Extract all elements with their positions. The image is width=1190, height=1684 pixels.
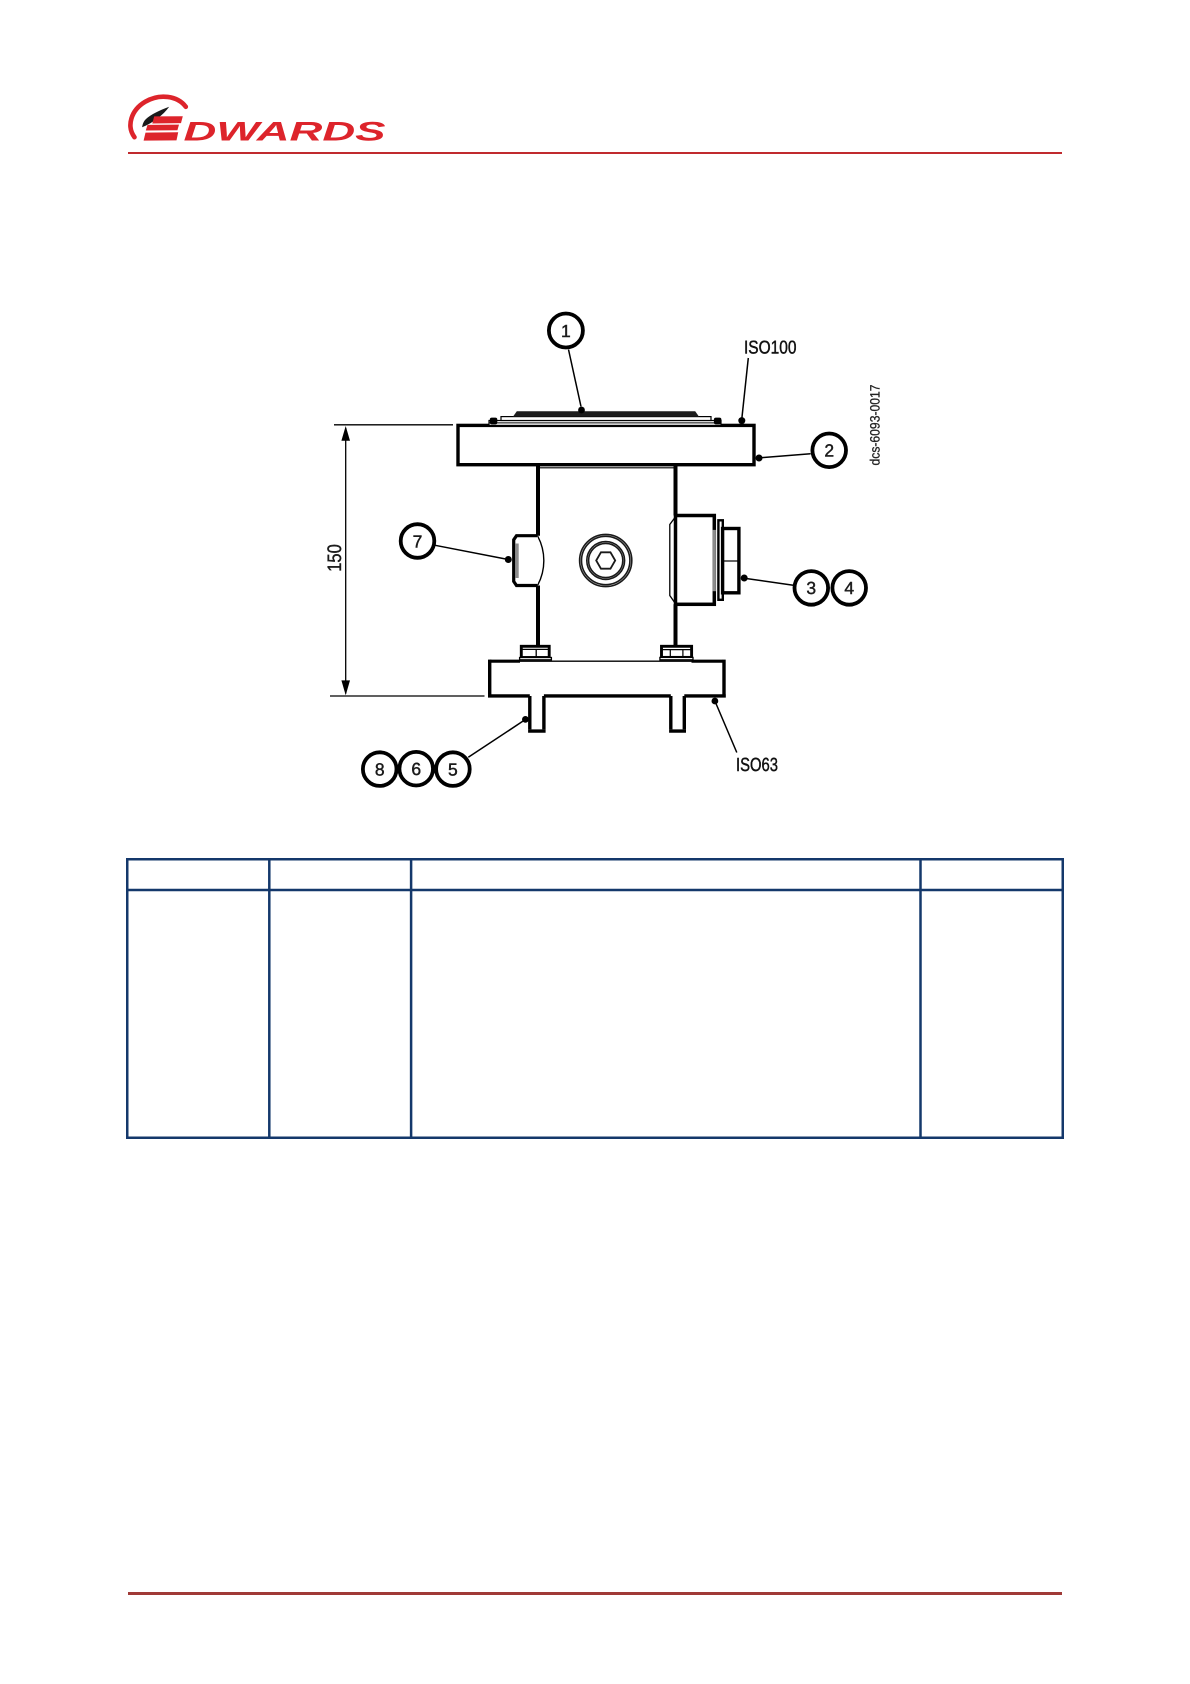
callout 3 <box>795 571 829 605</box>
callout 1 <box>549 314 583 348</box>
dimension 150 extension line top <box>334 424 453 426</box>
bottom flange right edge <box>722 660 725 698</box>
right nut <box>662 646 692 657</box>
bottom flange left edge <box>488 660 491 698</box>
callout 6 <box>399 752 433 786</box>
dimension arrow bottom <box>341 680 350 695</box>
logo E bars <box>152 116 183 123</box>
callout 7 leader <box>435 545 506 559</box>
left washer <box>520 658 552 660</box>
header red rule <box>128 152 1062 155</box>
bottom flange bottom edge <box>488 694 726 697</box>
left port leader dot <box>505 556 512 563</box>
svg-text:ISO63: ISO63 <box>736 755 778 776</box>
ISO63 leader dot <box>712 698 719 705</box>
right port collar <box>718 520 722 600</box>
lid top plate dark <box>513 411 699 416</box>
svg-text:2: 2 <box>824 441 834 461</box>
table outer border <box>127 859 1063 1138</box>
callout 1 leader <box>569 350 582 407</box>
callout 2 leader <box>762 454 811 458</box>
right port tube mid line <box>723 560 738 562</box>
logo swoosh <box>142 107 169 127</box>
svg-text:3: 3 <box>806 578 816 598</box>
svg-text:8: 8 <box>375 759 385 779</box>
Edwards logo <box>110 80 410 155</box>
callout 3 4 leader <box>747 579 793 586</box>
svg-text:5: 5 <box>448 759 458 779</box>
dimension 150 extension line bottom <box>330 695 485 697</box>
svg-text:DWARDS: DWARDS <box>184 117 386 147</box>
right port thin outline <box>670 517 676 604</box>
right leg <box>671 696 685 729</box>
ISO63 leader <box>715 701 737 753</box>
left leg leader dot <box>522 716 529 723</box>
left port bulge arc <box>538 536 544 585</box>
svg-text:7: 7 <box>413 531 423 551</box>
callout 5 leader <box>468 720 525 758</box>
right port main block <box>676 516 715 605</box>
parts table <box>126 858 1064 1139</box>
bottom flange top edge <box>490 660 520 663</box>
right port leader dot <box>741 575 748 582</box>
lid clamp left <box>490 418 498 425</box>
centre hex port circles <box>580 534 632 586</box>
lid band lower <box>489 421 721 426</box>
callout 7 <box>401 524 435 558</box>
top flange ISO100 body <box>458 425 754 464</box>
svg-text:ISO100: ISO100 <box>744 336 797 357</box>
dimension arrow top <box>341 426 350 441</box>
svg-text:4: 4 <box>844 578 854 598</box>
left nut <box>521 646 549 657</box>
body wall left lower <box>536 586 540 647</box>
table column dividers <box>269 858 920 1139</box>
left leg <box>530 696 544 729</box>
table header divider <box>126 889 1064 892</box>
ISO100 leader <box>742 358 749 419</box>
body wall right upper <box>674 464 678 516</box>
body wall left upper <box>536 464 540 536</box>
body wall right lower <box>674 604 678 646</box>
callout 5 <box>436 752 470 786</box>
svg-text:1: 1 <box>561 321 571 341</box>
left port gray face <box>516 544 519 579</box>
callout 8 <box>363 752 397 786</box>
right port gray edge <box>713 530 716 591</box>
centre hex socket <box>596 552 615 568</box>
left port outline <box>514 536 538 586</box>
callout 4 <box>832 571 866 605</box>
svg-text:6: 6 <box>411 759 421 779</box>
lid band middle <box>501 417 711 421</box>
svg-text:150: 150 <box>324 544 346 572</box>
right washer <box>660 657 693 659</box>
callout 2 <box>812 434 846 468</box>
lid clamp right <box>714 418 722 425</box>
dimension 150 line <box>345 428 347 694</box>
right port tube <box>723 529 739 593</box>
logo arc <box>130 97 185 138</box>
svg-text:dcs-6093-0017: dcs-6093-0017 <box>868 385 883 466</box>
top flange inner thin line <box>540 467 674 469</box>
footer red rule <box>128 1592 1062 1595</box>
technical drawing <box>300 290 900 800</box>
